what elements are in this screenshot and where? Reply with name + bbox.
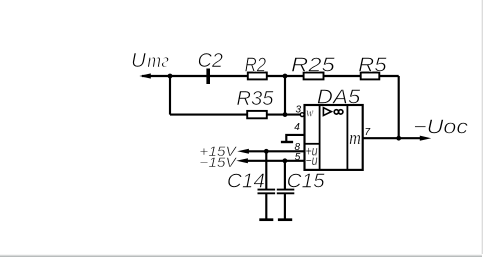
capacitor C2	[206, 69, 210, 85]
svg-text:−u: −u	[305, 153, 318, 168]
ground bar	[281, 141, 293, 143]
capacitor C15	[277, 161, 295, 220]
resistor R25	[304, 73, 324, 80]
resistor R2	[248, 73, 267, 80]
amplifier triangle symbol	[323, 108, 331, 116]
svg-text:R5: R5	[358, 53, 387, 76]
svg-text:5: 5	[295, 152, 301, 163]
wire +15V rail pin 8	[247, 150, 305, 152]
svg-text:m: m	[349, 128, 361, 149]
svg-text:3: 3	[296, 104, 302, 115]
svg-text:Uтг: Uтг	[131, 49, 169, 72]
pin 3 inversion bubble	[300, 113, 304, 117]
infinity symbol	[334, 110, 343, 114]
wire output rail	[363, 137, 424, 139]
resistor R35	[247, 111, 267, 118]
wire feedback vertical	[398, 76, 400, 138]
node B junction dot	[283, 74, 288, 79]
op-amp DA5 body	[305, 105, 363, 170]
svg-text:R2: R2	[245, 53, 267, 76]
node E junction dot	[283, 158, 288, 163]
node F junction dot	[396, 136, 401, 141]
arrow output right	[420, 136, 431, 141]
page border right	[481, 0, 483, 254]
svg-text:C15: C15	[287, 169, 326, 192]
svg-text:R25: R25	[291, 53, 335, 76]
node C junction dot	[283, 112, 288, 117]
wire left branch vertical	[169, 76, 171, 115]
svg-text:C2: C2	[198, 49, 224, 72]
svg-text:7: 7	[365, 127, 371, 138]
svg-text:w: w	[306, 104, 314, 119]
svg-text:−15V: −15V	[199, 155, 238, 170]
wire mid vertical link	[284, 76, 286, 115]
wire top rail	[142, 75, 399, 77]
resistor R5	[361, 73, 380, 80]
svg-text:R35: R35	[236, 87, 274, 110]
wire pin 4	[286, 135, 304, 141]
page border bottom	[0, 254, 482, 257]
svg-text:C14: C14	[227, 169, 265, 192]
arrow input left	[139, 73, 151, 78]
capacitor C14	[258, 151, 276, 219]
svg-text:−Uос: −Uос	[413, 115, 469, 138]
svg-text:DA5: DA5	[317, 85, 361, 108]
svg-text:4: 4	[294, 122, 300, 133]
arrow -15V	[236, 158, 248, 163]
wire lower branch	[170, 114, 302, 116]
wire -15V rail pin 5	[246, 160, 305, 162]
arrow +15V	[237, 149, 249, 154]
node D junction dot	[264, 149, 269, 154]
node A junction dot	[168, 74, 173, 79]
